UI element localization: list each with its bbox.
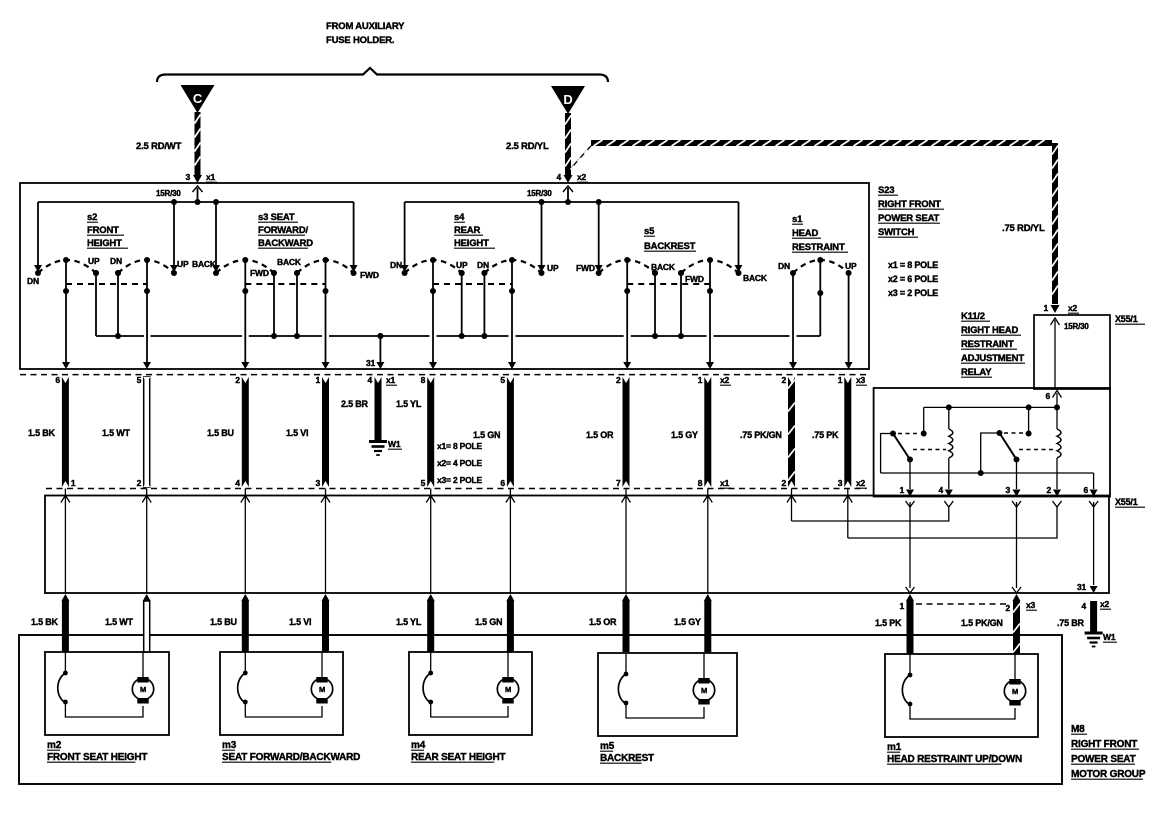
switch s2 rocker 1 arc bbox=[38, 260, 96, 273]
svg-text:DN: DN bbox=[110, 256, 122, 266]
switch s2 rocker 2 arc bbox=[118, 260, 174, 273]
svg-text:SWITCH: SWITCH bbox=[878, 227, 915, 238]
switch s5 coupling bbox=[627, 283, 710, 285]
svg-text:SEAT FORWARD/BACKWARD: SEAT FORWARD/BACKWARD bbox=[222, 752, 360, 763]
switch s4 pole 2 to pin 5 bbox=[509, 257, 515, 263]
wire 1.5 YL pin 8/5 bbox=[427, 377, 434, 487]
relay armature common bus to pin 6 bbox=[881, 472, 1094, 474]
svg-text:s5: s5 bbox=[644, 226, 655, 237]
motor m5 box bbox=[598, 653, 737, 736]
svg-text:1.5 PK: 1.5 PK bbox=[875, 618, 902, 628]
svg-text:M: M bbox=[505, 685, 511, 694]
wire 1.5 BU to motor bbox=[241, 594, 249, 601]
svg-text:M: M bbox=[140, 685, 146, 694]
motor m3 motor symbol bbox=[321, 652, 323, 678]
svg-text:1: 1 bbox=[838, 375, 843, 385]
svg-text:6: 6 bbox=[500, 478, 505, 488]
svg-text:FWD: FWD bbox=[576, 263, 595, 273]
feed drop to s4 UP contact bbox=[541, 202, 543, 266]
svg-text:x1: x1 bbox=[720, 478, 730, 488]
switch s5 rocker 2 arc bbox=[681, 260, 739, 273]
svg-text:x2: x2 bbox=[577, 172, 587, 182]
wire through junction box bbox=[325, 489, 327, 594]
svg-text:4: 4 bbox=[235, 478, 240, 488]
svg-text:31: 31 bbox=[1077, 582, 1087, 592]
svg-text:BACK: BACK bbox=[743, 273, 768, 283]
svg-text:POWER SEAT: POWER SEAT bbox=[878, 213, 940, 224]
svg-text:15R/30: 15R/30 bbox=[156, 189, 181, 198]
svg-text:s2: s2 bbox=[87, 212, 97, 223]
motor m1 limit switch bbox=[909, 654, 911, 675]
svg-text:3: 3 bbox=[838, 478, 843, 488]
svg-text:X55/1: X55/1 bbox=[1115, 314, 1138, 324]
switch s3 pole 1 to pin 2 bbox=[242, 257, 248, 263]
svg-text:m2: m2 bbox=[47, 740, 62, 751]
wire through junction box bbox=[707, 489, 709, 594]
svg-text:RESTRAINT: RESTRAINT bbox=[792, 242, 845, 253]
svg-text:FWD: FWD bbox=[360, 270, 379, 280]
svg-text:HEIGHT: HEIGHT bbox=[87, 238, 122, 249]
svg-text:2.5 RD/WT: 2.5 RD/WT bbox=[136, 141, 182, 152]
wire through junction box bbox=[146, 489, 148, 594]
switch s2 coupling bbox=[66, 283, 147, 285]
svg-text:.75 BR: .75 BR bbox=[1057, 618, 1085, 628]
svg-text:4: 4 bbox=[367, 375, 372, 385]
svg-text:x2: x2 bbox=[1100, 599, 1110, 609]
svg-text:DN: DN bbox=[390, 260, 402, 270]
feed bus for s2 and s3 bbox=[38, 201, 354, 203]
svg-text:M: M bbox=[319, 685, 325, 694]
svg-text:1: 1 bbox=[899, 485, 904, 495]
svg-text:HEIGHT: HEIGHT bbox=[454, 238, 489, 249]
relay pin 3 wire to 1.5 PK/GN bbox=[1012, 501, 1021, 507]
svg-text:1.5 GN: 1.5 GN bbox=[475, 617, 502, 627]
switch s1 DN contact to pin 2 bbox=[792, 273, 794, 362]
relay K11/2 box bbox=[874, 388, 1110, 497]
svg-text:W1: W1 bbox=[1103, 632, 1116, 642]
wire 1.5 GY pin 1/8 bbox=[704, 377, 711, 487]
wire 1.5 YL to motor bbox=[427, 594, 435, 601]
svg-text:RIGHT FRONT: RIGHT FRONT bbox=[1071, 739, 1137, 750]
motor m4 limit switch bbox=[430, 652, 432, 673]
wire 1.5 OR to motor bbox=[622, 594, 630, 601]
switch s1 UP contact to pin 1 bbox=[848, 273, 850, 362]
feed drop to s2 DN contact bbox=[37, 202, 39, 266]
svg-text:DN: DN bbox=[778, 261, 790, 271]
connector dashed line x1 x2 x3 top bbox=[20, 374, 866, 376]
switch s5 pole 2 to pin 1 bbox=[707, 257, 713, 263]
svg-text:x2: x2 bbox=[720, 375, 730, 385]
svg-text:DN: DN bbox=[477, 260, 489, 270]
svg-text:M: M bbox=[701, 686, 707, 695]
svg-text:4: 4 bbox=[938, 485, 943, 495]
motor m2 limit switch bbox=[64, 652, 66, 673]
svg-text:.75 RD/YL: .75 RD/YL bbox=[1002, 223, 1045, 234]
feed drop to s2 UP contact bbox=[173, 202, 175, 266]
svg-text:1.5 YL: 1.5 YL bbox=[396, 399, 422, 409]
svg-text:1.5 WT: 1.5 WT bbox=[105, 617, 134, 627]
feed drop to s3 BACK contact bbox=[215, 202, 217, 266]
relay contact drop 2 bbox=[1028, 407, 1030, 432]
harness junction box bbox=[45, 496, 1109, 594]
switch s4 inner contact DN bbox=[481, 270, 487, 276]
feed drop to s4 DN contact bbox=[404, 202, 406, 266]
relay pin 6 wire to ground 31 bbox=[1089, 501, 1098, 507]
motor m2 box bbox=[45, 652, 169, 735]
connector dashed line bottom bbox=[46, 488, 866, 490]
wire through junction box bbox=[625, 489, 627, 594]
svg-text:2.5 RD/YL: 2.5 RD/YL bbox=[506, 141, 549, 152]
svg-text:4: 4 bbox=[556, 172, 561, 182]
svg-text:HEAD RESTRAINT UP/DOWN: HEAD RESTRAINT UP/DOWN bbox=[887, 754, 1022, 765]
wire .75 PK/GN pin 2/2 bbox=[788, 377, 795, 487]
wire 1.5 VI to motor bbox=[322, 594, 330, 601]
svg-text:C: C bbox=[193, 91, 203, 106]
motor m3 box bbox=[220, 652, 343, 735]
switch s2 pole 1 to pin 6 bbox=[63, 257, 69, 263]
motor m1 motor symbol bbox=[1014, 654, 1016, 680]
svg-text:POWER SEAT: POWER SEAT bbox=[1071, 754, 1136, 765]
svg-text:2: 2 bbox=[137, 478, 142, 488]
svg-text:m3: m3 bbox=[222, 740, 237, 751]
svg-text:BACKREST: BACKREST bbox=[644, 241, 696, 252]
svg-text:.75 PK/GN: .75 PK/GN bbox=[740, 430, 782, 440]
svg-text:1: 1 bbox=[899, 601, 904, 611]
crossover PK/GN to relay pin 4 bbox=[792, 507, 949, 521]
svg-text:7: 7 bbox=[616, 478, 621, 488]
svg-text:s4: s4 bbox=[454, 212, 465, 223]
svg-text:x1 = 8 POLE: x1 = 8 POLE bbox=[888, 260, 938, 270]
svg-text:5: 5 bbox=[137, 375, 142, 385]
node 31 drop to pin 4 bbox=[377, 333, 383, 339]
wire .75 RD/YL branch to relay connector X55/1 bbox=[565, 140, 597, 174]
svg-text:FROM AUXILIARY: FROM AUXILIARY bbox=[326, 21, 405, 32]
svg-text:BACK: BACK bbox=[192, 259, 217, 269]
wire 1.5 BK pin 6/1 bbox=[62, 377, 69, 487]
motor m1 box bbox=[885, 654, 1038, 737]
switch wire .75 PK/GN into junction box bbox=[791, 489, 793, 522]
svg-text:UP: UP bbox=[177, 259, 189, 269]
svg-text:6: 6 bbox=[1045, 391, 1050, 401]
wire through junction box bbox=[509, 489, 511, 594]
svg-text:1.5 GY: 1.5 GY bbox=[674, 617, 701, 627]
switch s3 rocker 2 arc bbox=[297, 260, 354, 273]
svg-text:S23: S23 bbox=[878, 185, 894, 196]
svg-text:m1: m1 bbox=[887, 742, 902, 753]
svg-text:M: M bbox=[1012, 687, 1018, 696]
switch s2 inner contact DN bbox=[115, 270, 121, 276]
switch s4 coupling bbox=[433, 283, 512, 285]
switch s1 pole to ground bus bbox=[817, 257, 823, 263]
switch s5 inner contact FWD bbox=[678, 270, 684, 276]
svg-text:1: 1 bbox=[1043, 303, 1048, 313]
switch s2 pole 2 to pin 5 bbox=[144, 257, 150, 263]
svg-text:31: 31 bbox=[366, 358, 376, 368]
svg-text:1.5 OR: 1.5 OR bbox=[586, 430, 614, 440]
switch s3 pole 2 to pin 1 bbox=[323, 257, 329, 263]
wire 1.5 GN to motor bbox=[506, 594, 514, 601]
svg-text:3: 3 bbox=[1005, 485, 1010, 495]
svg-text:8: 8 bbox=[698, 478, 703, 488]
svg-text:FRONT: FRONT bbox=[87, 225, 119, 236]
svg-text:1.5 GN: 1.5 GN bbox=[473, 430, 500, 440]
svg-text:RIGHT FRONT: RIGHT FRONT bbox=[878, 199, 941, 210]
svg-text:1.5 YL: 1.5 YL bbox=[396, 617, 422, 627]
svg-text:2: 2 bbox=[1046, 485, 1051, 495]
wire through junction box bbox=[244, 489, 246, 594]
switch s3 inner contact BACK bbox=[294, 270, 300, 276]
svg-text:x3 = 2 POLE: x3 = 2 POLE bbox=[888, 288, 938, 298]
svg-text:FRONT SEAT HEIGHT: FRONT SEAT HEIGHT bbox=[47, 752, 147, 763]
svg-text:1.5 WT: 1.5 WT bbox=[102, 428, 131, 438]
svg-text:HEAD: HEAD bbox=[792, 228, 818, 239]
switch s3 rocker 1 arc bbox=[216, 260, 274, 273]
wire 2.5 RD/YL from tap D to pin 4 bbox=[565, 113, 571, 176]
wire .75 PK pin 1/3 bbox=[844, 377, 851, 487]
feed bus for s4 and s5 bbox=[405, 201, 739, 203]
svg-text:UP: UP bbox=[547, 263, 559, 273]
svg-text:RIGHT HEAD: RIGHT HEAD bbox=[961, 325, 1018, 336]
svg-text:2: 2 bbox=[1005, 603, 1010, 613]
svg-text:x1= 8 POLE: x1= 8 POLE bbox=[437, 441, 483, 451]
relay coil 1 to pin 4 bbox=[948, 407, 950, 429]
fuse tap C bbox=[181, 85, 215, 113]
switch s4 inner contact UP bbox=[459, 270, 465, 276]
svg-text:m4: m4 bbox=[411, 740, 426, 751]
svg-text:BACKREST: BACKREST bbox=[600, 753, 654, 764]
svg-text:1: 1 bbox=[315, 375, 320, 385]
svg-text:FWD: FWD bbox=[685, 274, 704, 284]
motor m4 motor symbol bbox=[507, 652, 509, 678]
relay coil 2 to pin 2 bbox=[1056, 407, 1058, 429]
svg-text:RELAY: RELAY bbox=[961, 367, 992, 378]
relay internal feed bus bbox=[924, 406, 1057, 408]
relay connector box X55/1 bbox=[1034, 315, 1110, 389]
svg-text:2: 2 bbox=[781, 375, 786, 385]
svg-text:FUSE HOLDER.: FUSE HOLDER. bbox=[326, 35, 394, 46]
motor m5 motor symbol bbox=[703, 653, 705, 679]
svg-text:ADJUSTMENT: ADJUSTMENT bbox=[961, 353, 1024, 364]
switch s3 coupling bbox=[245, 283, 325, 285]
svg-text:8: 8 bbox=[421, 375, 426, 385]
relay pin 6 feed bbox=[1053, 391, 1062, 398]
svg-text:REAR: REAR bbox=[454, 225, 480, 236]
svg-text:1.5 OR: 1.5 OR bbox=[589, 617, 617, 627]
svg-text:2: 2 bbox=[616, 375, 621, 385]
svg-text:x2: x2 bbox=[1068, 303, 1078, 313]
fuse tap D bbox=[551, 86, 585, 114]
svg-text:1.5 GY: 1.5 GY bbox=[671, 430, 698, 440]
svg-text:RESTRAINT: RESTRAINT bbox=[961, 339, 1014, 350]
svg-text:D: D bbox=[563, 92, 572, 107]
wire 2.5 BR pin 4 to ground bbox=[375, 377, 382, 440]
svg-text:X55/1: X55/1 bbox=[1115, 497, 1138, 507]
svg-text:M8: M8 bbox=[1071, 724, 1085, 735]
relay contact drop 1 bbox=[923, 407, 925, 432]
svg-text:K11/2: K11/2 bbox=[961, 311, 985, 322]
switch s1 arc bbox=[793, 260, 849, 273]
wire 1.5 PK/GN to motor m1 bbox=[1013, 594, 1021, 601]
svg-text:1.5 BK: 1.5 BK bbox=[28, 428, 56, 438]
svg-text:1: 1 bbox=[698, 375, 703, 385]
svg-text:3: 3 bbox=[315, 478, 320, 488]
svg-text:BACK: BACK bbox=[651, 262, 676, 272]
wire 1.5 WT to motor bbox=[143, 594, 151, 601]
svg-text:x2= 4 POLE: x2= 4 POLE bbox=[437, 458, 483, 468]
feed drop to s5 FWD contact bbox=[598, 202, 600, 266]
wire 1.5 PK to motor m1 bbox=[906, 594, 914, 601]
motor m3 limit switch bbox=[244, 652, 246, 673]
svg-text:BACK: BACK bbox=[277, 257, 302, 267]
connector x3 dashed line bbox=[916, 603, 1009, 605]
svg-text:4: 4 bbox=[1081, 601, 1086, 611]
svg-text:6: 6 bbox=[1083, 485, 1088, 495]
switch s4 rocker 2 arc bbox=[484, 260, 541, 273]
svg-text:5: 5 bbox=[421, 478, 426, 488]
motor m4 box bbox=[409, 652, 532, 735]
svg-text:6: 6 bbox=[55, 375, 60, 385]
switch s5 pole 1 to pin 2 bbox=[624, 257, 630, 263]
relay pin 1 wire to 1.5 PK bbox=[906, 501, 915, 507]
svg-text:W1: W1 bbox=[388, 439, 401, 449]
svg-text:2: 2 bbox=[235, 375, 240, 385]
wire 1.5 VI pin 1/3 bbox=[322, 377, 329, 487]
switch s4 pole 1 to pin 8 bbox=[430, 257, 436, 263]
svg-text:x3: x3 bbox=[856, 375, 866, 385]
wire 1.5 OR pin 2/7 bbox=[623, 377, 630, 487]
motor m5 limit switch bbox=[625, 653, 627, 674]
brace over fuse feeds bbox=[157, 68, 608, 82]
svg-text:x3= 2 POLE: x3= 2 POLE bbox=[437, 475, 483, 485]
svg-text:x1: x1 bbox=[206, 172, 216, 182]
svg-text:UP: UP bbox=[88, 256, 100, 266]
svg-text:1: 1 bbox=[71, 478, 76, 488]
svg-text:s3 SEAT: s3 SEAT bbox=[258, 212, 295, 223]
svg-text:15R/30: 15R/30 bbox=[527, 189, 552, 198]
svg-text:MOTOR GROUP: MOTOR GROUP bbox=[1071, 769, 1146, 780]
svg-text:m5: m5 bbox=[600, 741, 615, 752]
svg-text:1.5 BU: 1.5 BU bbox=[207, 428, 234, 438]
svg-text:s1: s1 bbox=[792, 214, 803, 225]
svg-text:BACKWARD: BACKWARD bbox=[258, 238, 313, 249]
svg-text:1.5 VI: 1.5 VI bbox=[286, 428, 308, 438]
feed drop to s5 BACK contact bbox=[738, 202, 740, 266]
svg-text:.75 PK: .75 PK bbox=[812, 430, 839, 440]
wire through junction box bbox=[430, 489, 432, 594]
svg-text:2: 2 bbox=[781, 478, 786, 488]
svg-text:5: 5 bbox=[500, 375, 505, 385]
svg-text:x3: x3 bbox=[1026, 600, 1036, 610]
svg-text:15R/30: 15R/30 bbox=[1064, 322, 1089, 331]
svg-text:FORWARD/: FORWARD/ bbox=[258, 225, 309, 236]
ground W1 left bbox=[369, 440, 387, 443]
svg-text:UP: UP bbox=[845, 261, 857, 271]
svg-text:1.5 BU: 1.5 BU bbox=[210, 617, 237, 627]
svg-text:3: 3 bbox=[185, 172, 190, 182]
switch s4 rocker 1 arc bbox=[405, 260, 462, 273]
relay switch 2 armature bbox=[997, 430, 1003, 436]
switch s2 inner contact UP bbox=[93, 270, 99, 276]
svg-text:REAR SEAT HEIGHT: REAR SEAT HEIGHT bbox=[411, 752, 505, 763]
wire 1.5 WT pin 5/2 bbox=[144, 377, 150, 487]
wire through junction box bbox=[64, 489, 66, 594]
feed drop to s3 FWD contact bbox=[353, 202, 355, 266]
switch s5 inner contact BACK bbox=[652, 270, 658, 276]
svg-text:1.5 VI: 1.5 VI bbox=[289, 617, 311, 627]
svg-text:UP: UP bbox=[456, 260, 468, 270]
wire 1.5 BK to motor bbox=[61, 594, 69, 601]
svg-text:x2: x2 bbox=[856, 478, 866, 488]
svg-text:x1: x1 bbox=[386, 375, 396, 385]
relay switch 1 armature bbox=[890, 431, 896, 437]
wire 1.5 GY to motor bbox=[704, 594, 712, 601]
svg-text:1.5 BK: 1.5 BK bbox=[31, 617, 59, 627]
motor m2 motor symbol bbox=[142, 652, 144, 678]
crossover PK to relay pin 2 bbox=[848, 507, 1057, 538]
switch wire .75 PK into junction box bbox=[847, 489, 849, 539]
ground W1 right bbox=[1085, 632, 1103, 635]
wire 1.5 GN pin 5/6 bbox=[507, 377, 514, 487]
switch s5 rocker 1 arc bbox=[599, 260, 655, 273]
switch s3 inner contact FWD bbox=[271, 270, 277, 276]
svg-text:2.5 BR: 2.5 BR bbox=[341, 399, 369, 409]
wire .75 BR to ground bbox=[1090, 601, 1097, 632]
wire 1.5 BU pin 2/4 bbox=[242, 377, 249, 487]
svg-text:FWD: FWD bbox=[250, 268, 269, 278]
svg-text:1.5 PK/GN: 1.5 PK/GN bbox=[961, 618, 1003, 628]
outer box M8 right front power seat motor group bbox=[19, 635, 1062, 784]
ground return bus terminal 31 bbox=[96, 335, 144, 337]
wire 2.5 RD/WT from tap C to pin 3 bbox=[195, 112, 201, 176]
svg-text:DN: DN bbox=[27, 276, 39, 286]
svg-text:x2 = 6 POLE: x2 = 6 POLE bbox=[888, 274, 938, 284]
S23 right front power seat switch box bbox=[20, 183, 869, 369]
